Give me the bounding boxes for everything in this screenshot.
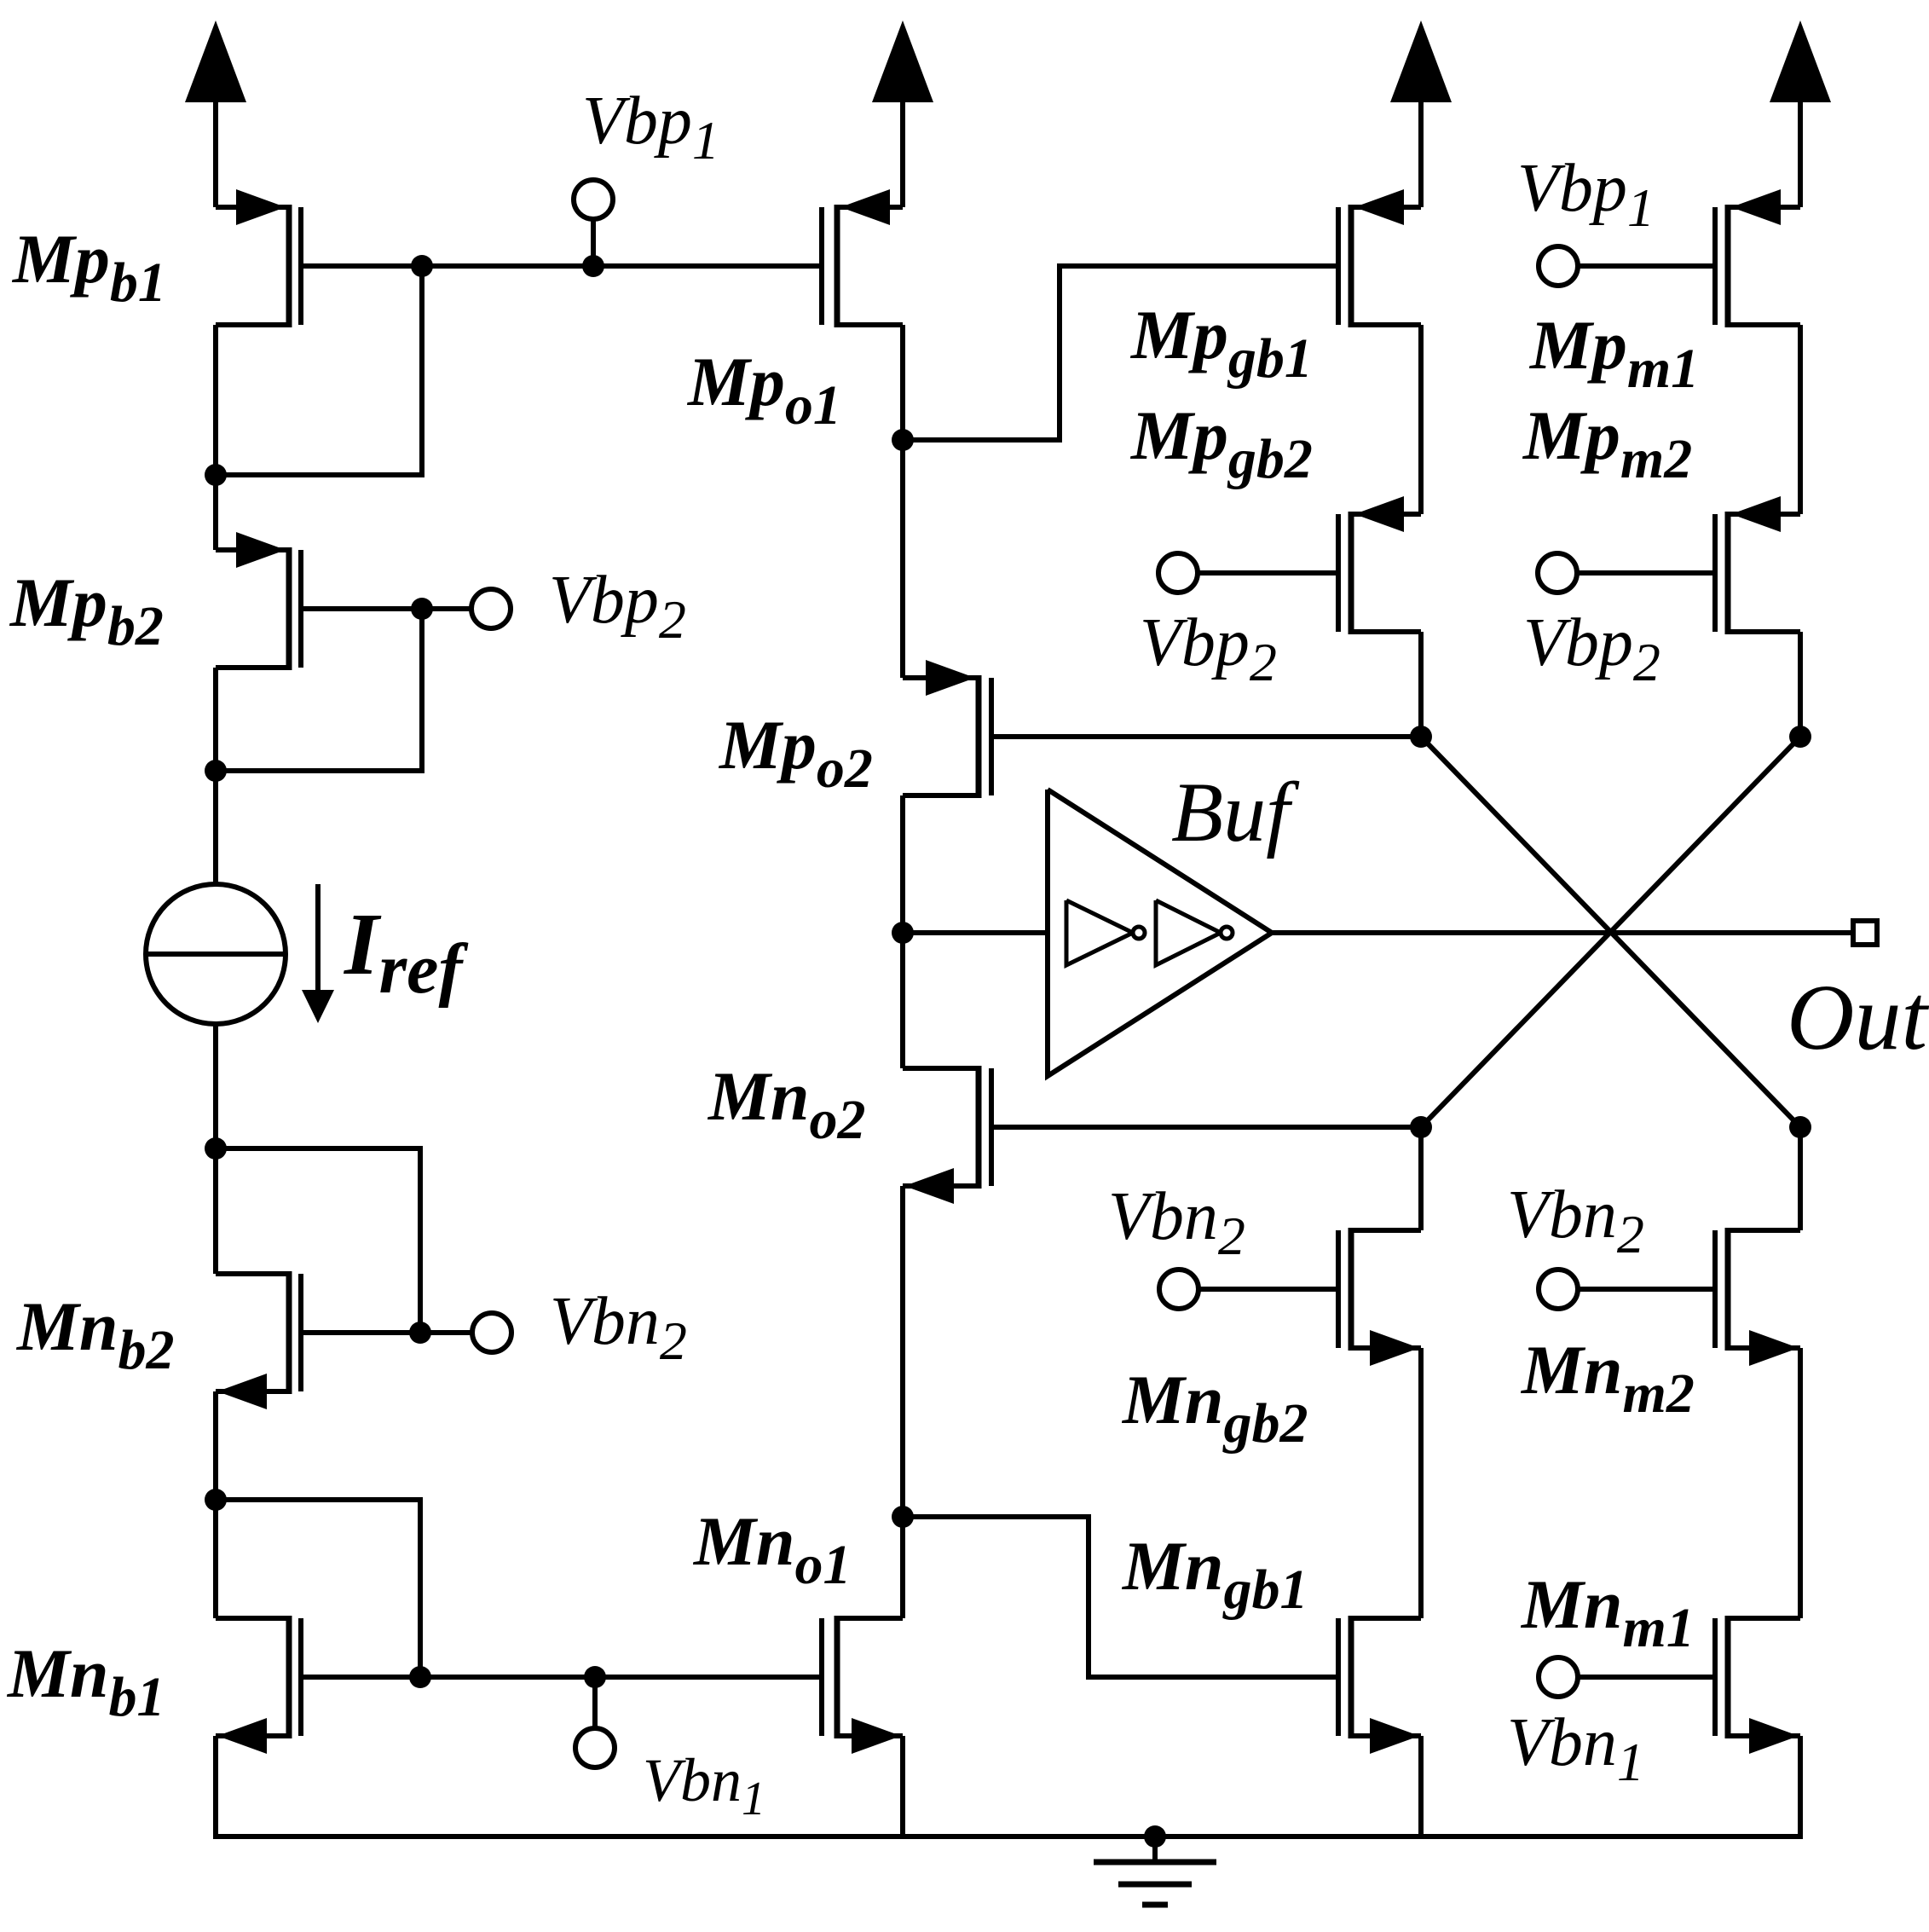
wire Buf input bbox=[903, 930, 1048, 935]
wire Mnb2 diode loop bbox=[216, 1148, 420, 1333]
wire Mpb1 diode loop bbox=[216, 266, 422, 475]
buffer inverter 1 bubble bbox=[1133, 927, 1145, 939]
terminal Vbp1 circle right bbox=[1539, 246, 1578, 286]
wire Mngb2 source to Mngb1 drain bbox=[1418, 1348, 1424, 1618]
wire Mnm1 source to ground bbox=[1798, 1736, 1803, 1837]
node Mnb1 drain junction bbox=[205, 1489, 227, 1511]
current source Iref circle bbox=[146, 884, 286, 1024]
transistor Mnm2 bbox=[1725, 1228, 1731, 1351]
terminal Vbp1 stub bbox=[591, 218, 596, 266]
wire Mnb2 source to Mnb1 bbox=[213, 1391, 218, 1618]
wire Mno2 source to Mno1 drain bbox=[900, 1186, 905, 1618]
wire Mno2 gate bbox=[994, 1125, 1421, 1130]
transistor Mnb1 bbox=[286, 1616, 292, 1738]
node A junction (Mnm2 drain) bbox=[1789, 1116, 1811, 1138]
wire Mngb1 source to ground bbox=[1418, 1736, 1424, 1837]
wire Vbp1 bias line bbox=[303, 263, 822, 269]
wire Mpb2 drain to Iref bbox=[213, 668, 218, 884]
wire Mnm2 drain to node A bbox=[1798, 1127, 1803, 1230]
wire Mnm2 gate bbox=[1578, 1287, 1715, 1292]
transistor Mpo2 bbox=[976, 675, 982, 798]
node Mno1 drain junction bbox=[892, 1506, 914, 1528]
wire Mpgb2 drain to node A bbox=[1418, 632, 1424, 737]
transistor Mpb2 bbox=[286, 547, 292, 670]
wire Mpgb1 drain to Mpgb2 source bbox=[1418, 325, 1424, 514]
wire Mpb2 diode loop bbox=[216, 609, 422, 771]
transistor Mpgb1 bbox=[1349, 205, 1354, 327]
transistor Mno1 bbox=[835, 1616, 840, 1738]
transistor Mpo1 bbox=[835, 205, 840, 327]
VDD arrow 4 bbox=[1770, 20, 1831, 102]
wire Mno1 drain to Mngb1 gate bbox=[903, 1517, 1338, 1677]
VDD arrow 2 bbox=[872, 20, 933, 102]
node B junction (Mpm2 drain) bbox=[1789, 726, 1811, 748]
node Mnb1 gate junction bbox=[409, 1666, 431, 1688]
wire Mpo2 gate bbox=[994, 734, 1421, 739]
node Vbn1 junction bbox=[584, 1666, 606, 1688]
transistor Mnm1 bbox=[1725, 1616, 1731, 1738]
wire Buf output to Out bbox=[1272, 930, 1853, 935]
node ground junction bbox=[1144, 1825, 1166, 1848]
node Mpb1 drain junction bbox=[205, 464, 227, 486]
ground symbol bbox=[1152, 1837, 1158, 1862]
svg-text:Out: Out bbox=[1787, 965, 1929, 1069]
wire Mpm1 gate bbox=[1578, 263, 1715, 269]
buffer inverter 2 bbox=[1156, 900, 1221, 965]
node Mpb2 drain junction bbox=[205, 760, 227, 782]
wire Iref to Mnb2 bbox=[213, 1024, 218, 1274]
node Mnb2 drain junction bbox=[205, 1137, 227, 1160]
terminal Vbp2 circle right bbox=[1538, 553, 1577, 593]
transistor Mpm1 bbox=[1725, 205, 1731, 327]
wire Mpo2 drain to Mno2 drain bbox=[900, 933, 905, 1068]
terminal Vbn1 stub bbox=[592, 1677, 598, 1729]
wire Mngb2 drain to node B bbox=[1418, 1127, 1424, 1230]
wire Mngb2 gate bbox=[1198, 1287, 1338, 1292]
VDD arrow 3 bbox=[1390, 20, 1452, 102]
transistor Mno2 bbox=[976, 1066, 982, 1189]
node Mpo1 drain junction bbox=[892, 429, 914, 451]
node Mpb2 gate junction bbox=[411, 598, 433, 620]
wire Mpm2 gate bbox=[1577, 570, 1715, 576]
wire Mpo1 drain to Mpgb1 gate bbox=[903, 266, 1338, 440]
transistor Mpb1 bbox=[286, 205, 292, 327]
node Buf input junction bbox=[892, 922, 914, 944]
terminal Vbp2 circle mid bbox=[1158, 553, 1198, 593]
wire Mnb1 source to ground bbox=[213, 1736, 218, 1837]
wire Mpb1 drain to Mpb2 source bbox=[213, 325, 218, 550]
terminal Vbn2 circle left bbox=[472, 1313, 511, 1352]
buffer Buf triangle bbox=[1048, 790, 1272, 1076]
transistor Mngb1 bbox=[1349, 1616, 1354, 1738]
transistor Mpgb2 bbox=[1349, 512, 1354, 634]
wire Mnm2 source to Mnm1 drain bbox=[1798, 1348, 1803, 1618]
current source Iref bar bbox=[146, 952, 286, 957]
wire diagonal node A bbox=[1421, 737, 1800, 1127]
node Vbp1 junction bbox=[582, 255, 604, 277]
node A junction (Mpo2 gate / Mpgb2 drain) bbox=[1410, 726, 1432, 748]
svg-text:Buf: Buf bbox=[1171, 765, 1300, 859]
wire Mno1 source to ground bbox=[900, 1736, 905, 1837]
wire Mpm1 drain to Mpm2 source bbox=[1798, 325, 1803, 514]
wire Mnb1 diode loop bbox=[216, 1500, 420, 1677]
node Mnb2 gate junction bbox=[409, 1322, 431, 1344]
wire Mpo2 drain bbox=[900, 795, 905, 933]
wire Mpb2 gate bbox=[303, 606, 472, 611]
terminal Vbn1 circle left bbox=[575, 1728, 615, 1767]
terminal Vbn1 circle right bbox=[1539, 1657, 1578, 1697]
terminal Vbn2 circle right bbox=[1539, 1270, 1578, 1309]
wire Mpgb2 gate bbox=[1197, 570, 1338, 576]
wire ground rail bbox=[213, 1834, 1803, 1839]
wire Mpo1 drain to Mpo2 source bbox=[900, 440, 905, 678]
terminal Out square bbox=[1853, 921, 1877, 945]
transistor Mpm2 bbox=[1725, 512, 1731, 634]
terminal Vbp2 circle left bbox=[471, 589, 511, 628]
wire Mnm1 gate bbox=[1578, 1675, 1715, 1680]
VDD arrow 1 bbox=[185, 20, 246, 102]
terminal Vbn2 circle mid bbox=[1159, 1270, 1198, 1309]
node B junction (Mno2 gate / Mngb2 drain) bbox=[1410, 1116, 1432, 1138]
wire Mpm2 drain to node B bbox=[1798, 632, 1803, 737]
terminal Vbp1 circle bbox=[574, 180, 613, 219]
transistor Mngb2 bbox=[1349, 1228, 1354, 1351]
transistor Mnb2 bbox=[286, 1271, 292, 1394]
current source Iref arrow bbox=[315, 884, 321, 992]
buffer inverter 2 bubble bbox=[1221, 927, 1233, 939]
buffer inverter 1 bbox=[1066, 900, 1133, 965]
node Mpb1 gate-drain junction bbox=[411, 255, 433, 277]
wire diagonal node B bbox=[1421, 737, 1800, 1127]
wire Mnb2 gate bbox=[303, 1330, 473, 1335]
wire Vbn1 bias line bbox=[303, 1675, 822, 1680]
wire Mpo1 drain bbox=[900, 325, 905, 440]
